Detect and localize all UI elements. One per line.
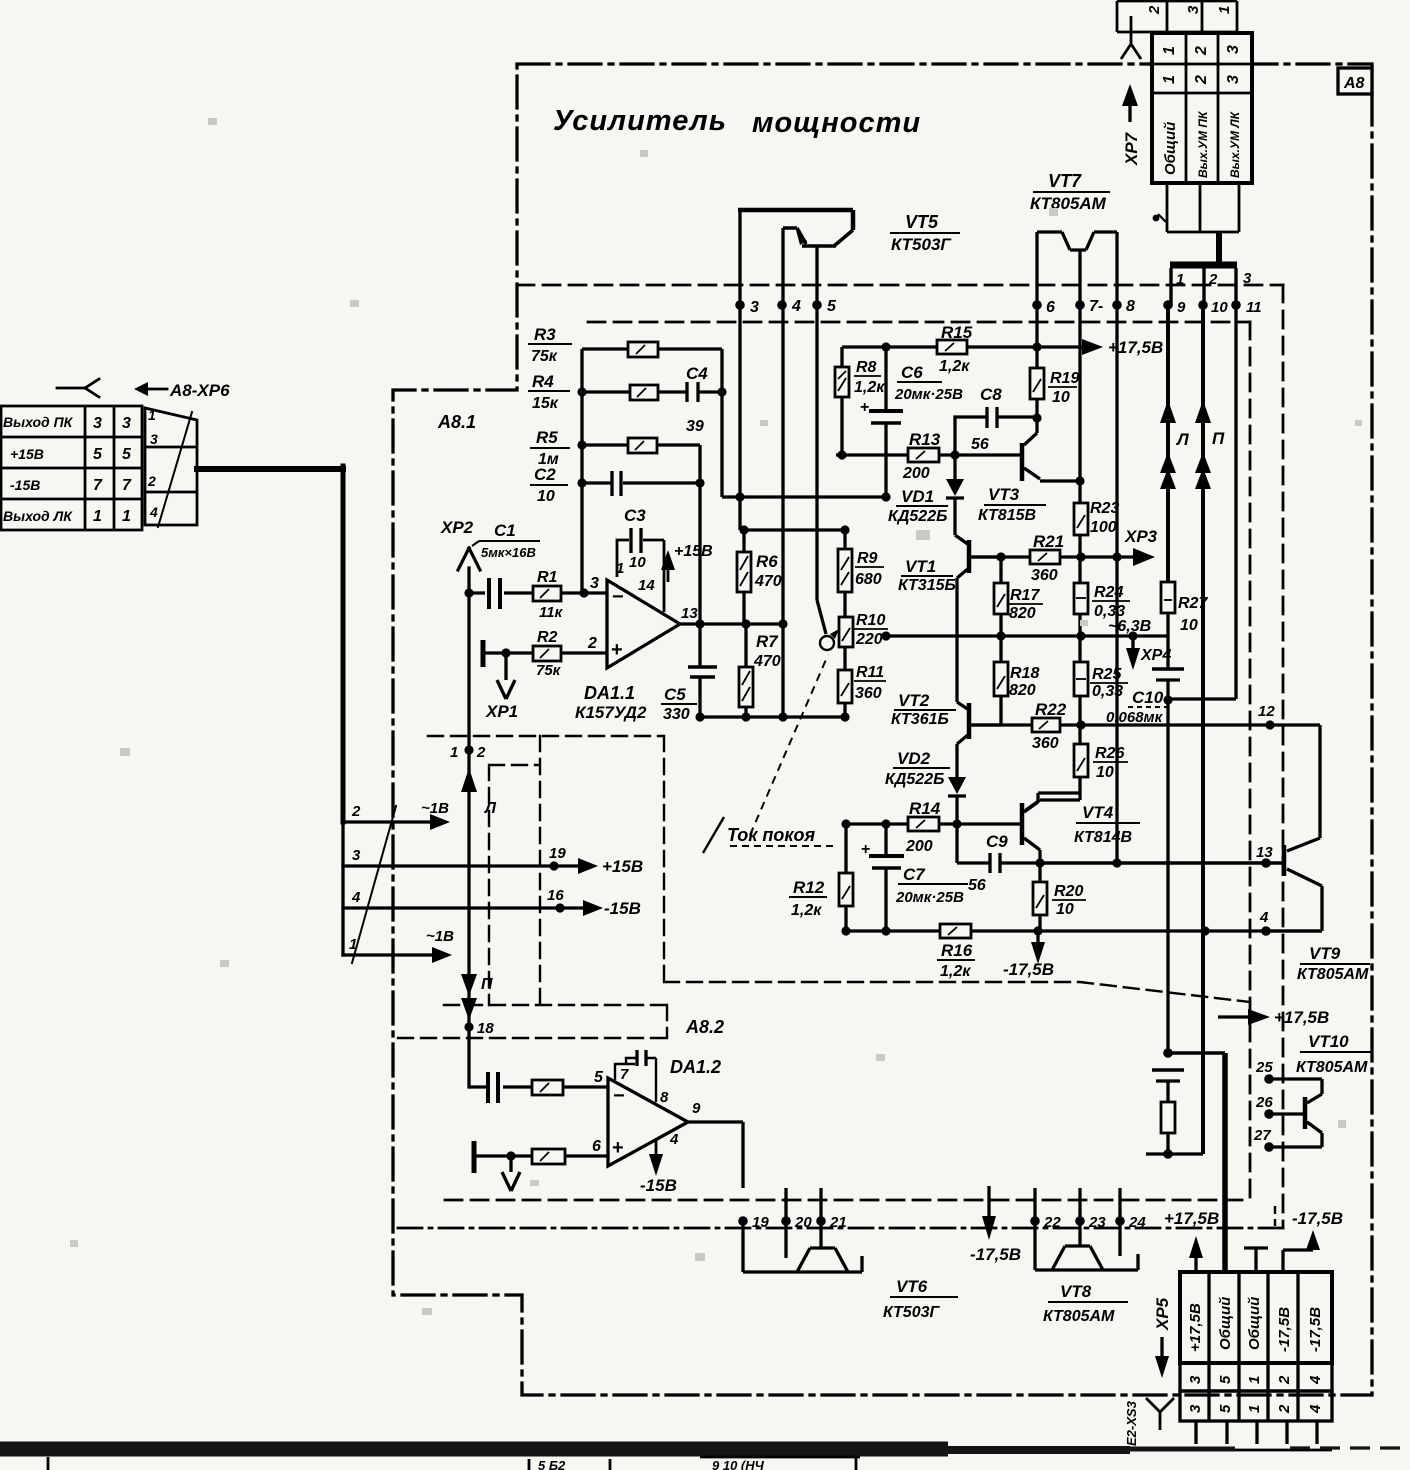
svg-text:3: 3: [1225, 75, 1242, 84]
board edge dashed line top outer: [517, 284, 1283, 287]
svg-text:-17,5В: -17,5В: [1276, 1307, 1293, 1352]
svg-text:100: 100: [1090, 519, 1117, 536]
svg-text:Вых.УМ ПК: Вых.УМ ПК: [1196, 110, 1210, 178]
connector XP7 upper mating cells: [1117, 1, 1237, 32]
svg-text:10: 10: [1056, 901, 1074, 918]
svg-text:R14: R14: [909, 799, 941, 818]
svg-text:КД522Б: КД522Б: [885, 771, 944, 788]
svg-text:VT2: VT2: [898, 691, 930, 710]
svg-text:5: 5: [93, 446, 103, 463]
svg-text:А8.2: А8.2: [685, 1017, 724, 1037]
svg-text:3: 3: [1185, 5, 1202, 14]
svg-text:R2: R2: [537, 629, 558, 646]
svg-text:2: 2: [1193, 75, 1210, 85]
svg-text:С3: С3: [624, 506, 646, 525]
svg-text:VT5: VT5: [905, 212, 939, 232]
svg-text:2: 2: [587, 635, 597, 652]
Tok pokoya label: [703, 817, 724, 853]
cable arrow to A8-XP6: [146, 388, 167, 391]
transistor VT5 (external, top): [738, 210, 853, 230]
svg-text:VT8: VT8: [1060, 1282, 1092, 1301]
resistor R6: [742, 530, 745, 624]
connector plug parallelogram: [145, 408, 197, 527]
svg-text:+15В: +15В: [602, 857, 643, 876]
svg-text:-15В: -15В: [640, 1176, 677, 1195]
resistor R7: [744, 624, 747, 717]
svg-text:Усилитель: Усилитель: [553, 105, 727, 137]
XP4 test point arrow down: [1131, 636, 1134, 650]
XP3 arrowhead: [1133, 548, 1155, 566]
svg-text:VT9: VT9: [1309, 944, 1341, 963]
svg-text:VT1: VT1: [905, 557, 936, 576]
pins 22,23,24: [1030, 1216, 1040, 1226]
svg-text:3: 3: [1225, 45, 1242, 54]
board edge dashed line top inner: [588, 321, 1250, 324]
svg-text:3: 3: [150, 431, 158, 447]
svg-text:75к: 75к: [531, 348, 558, 365]
svg-text:5: 5: [594, 1069, 604, 1086]
svg-text:13: 13: [1256, 844, 1273, 861]
svg-text:R12: R12: [793, 878, 825, 897]
svg-text:ХР7: ХР7: [1122, 131, 1141, 166]
svg-text:7: 7: [620, 1066, 629, 1083]
svg-text:25: 25: [1255, 1059, 1273, 1076]
svg-text:~1В: ~1В: [421, 800, 449, 817]
svg-text:200: 200: [902, 465, 930, 482]
svg-text:360: 360: [855, 685, 882, 702]
XP1 test point arrow: [497, 653, 515, 699]
svg-text:Ток покоя: Ток покоя: [727, 825, 816, 845]
svg-text:+: +: [612, 1137, 624, 1159]
op-amp DA1.2: [608, 1078, 688, 1166]
R22 row y=725: [969, 723, 1320, 726]
svg-text:2: 2: [1146, 5, 1163, 15]
cable trunk vertical: [341, 466, 346, 822]
output pin 9: [688, 1120, 743, 1123]
transistor VT8: [1035, 1221, 1120, 1270]
svg-text:ХР3: ХР3: [1124, 527, 1158, 546]
svg-text:А8-ХР6: А8-ХР6: [169, 381, 230, 400]
svg-text:1: 1: [450, 744, 458, 761]
resistor R3 row: [582, 347, 722, 350]
svg-text:2: 2: [476, 744, 486, 761]
capacitor C4: [687, 382, 698, 402]
svg-text:+: +: [860, 399, 869, 416]
ground stub bar (R2 input): [481, 640, 486, 667]
svg-text:27: 27: [1253, 1127, 1271, 1144]
svg-text:1: 1: [1161, 46, 1178, 55]
svg-text:~1В: ~1В: [426, 928, 454, 945]
P output line (pin 10): [1201, 305, 1205, 1154]
svg-text:КТ805АМ: КТ805АМ: [1296, 1059, 1368, 1076]
svg-text:9: 9: [1177, 299, 1186, 316]
svg-text:1: 1: [93, 508, 102, 525]
pin 7 box and cap: [615, 1064, 635, 1080]
pin13 row y=863: [1040, 861, 1283, 864]
svg-text:470: 470: [754, 573, 782, 590]
diode VD1: [953, 455, 956, 535]
svg-text:С6: С6: [901, 363, 923, 382]
R14 row y=824: [846, 822, 1022, 825]
capacitor C8 loop: [955, 417, 1037, 455]
row y=530: [740, 497, 845, 530]
svg-text:3: 3: [122, 415, 131, 432]
svg-text:К157УД2: К157УД2: [575, 703, 647, 722]
svg-text:2: 2: [351, 803, 361, 820]
svg-text:С4: С4: [686, 364, 708, 383]
+17,5V arrow above col1: [1194, 1256, 1197, 1272]
transistor VT2: [957, 702, 969, 710]
svg-text:18: 18: [477, 1020, 494, 1037]
svg-text:+: +: [861, 841, 870, 858]
resistor R18: [999, 636, 1002, 725]
svg-text:R19: R19: [1050, 370, 1079, 387]
svg-text:+15В: +15В: [10, 446, 44, 462]
connector table XP6 (left): [1, 406, 142, 530]
plug slant mark: [158, 412, 192, 527]
svg-text:R20: R20: [1054, 883, 1083, 900]
svg-text:11к: 11к: [539, 604, 564, 621]
mating fork at XP5: [1146, 1398, 1174, 1430]
svg-text:1: 1: [616, 560, 624, 577]
resistor R15: [937, 340, 967, 354]
resistor R8: [840, 347, 843, 455]
resistor R20: [1038, 863, 1041, 931]
svg-text:5: 5: [827, 298, 837, 315]
zobel capacitor: [1152, 1068, 1184, 1072]
svg-text:R4: R4: [532, 372, 554, 391]
input capacitor (DA1.2): [469, 1085, 486, 1088]
svg-text:5мк×16В: 5мк×16В: [481, 545, 536, 560]
svg-text:Е2-ХS3: Е2-ХS3: [1124, 1400, 1139, 1446]
svg-text:С7: С7: [903, 865, 926, 884]
svg-text:4: 4: [791, 298, 801, 315]
svg-text:R6: R6: [756, 552, 778, 571]
svg-text:56: 56: [971, 436, 989, 453]
arrowheads down on input wire (P channel): [461, 974, 477, 996]
wire to R2: [483, 651, 533, 654]
svg-text:КТ503Г: КТ503Г: [883, 1304, 941, 1321]
board edge dashed line right outer: [1282, 285, 1285, 1228]
svg-text:КТ805АМ: КТ805АМ: [1297, 966, 1369, 983]
svg-text:2: 2: [1276, 1404, 1293, 1414]
svg-text:5: 5: [1217, 1404, 1234, 1413]
ground bus y=717: [700, 715, 845, 718]
svg-text:6: 6: [1046, 299, 1055, 316]
svg-text:мощности: мощности: [752, 107, 921, 139]
svg-text:3: 3: [93, 415, 102, 432]
svg-text:+17,5В: +17,5В: [1108, 338, 1163, 357]
svg-text:20: 20: [794, 1214, 812, 1231]
pin 4 arrow (-15V): [655, 1140, 658, 1156]
svg-text:10: 10: [1180, 617, 1198, 634]
feedback row y=497: [722, 495, 886, 498]
svg-text:6: 6: [592, 1138, 601, 1155]
feedback vertical x=700 (R5/C2 to output/C5): [698, 445, 701, 667]
svg-text:R16: R16: [941, 941, 973, 960]
arrowhead row2 right: [430, 814, 450, 830]
svg-text:+17,5В: +17,5В: [1187, 1303, 1204, 1352]
svg-text:-15В: -15В: [10, 477, 40, 493]
svg-text:-17,5В: -17,5В: [1307, 1307, 1324, 1352]
node pin19 dot: [549, 861, 558, 870]
svg-text:1,2к: 1,2к: [940, 963, 971, 980]
svg-text:С9: С9: [986, 832, 1008, 851]
wire R2 to op-amp pin2: [561, 651, 607, 654]
transistor VT7 (external, top): [1037, 232, 1117, 250]
capacitor C7 (electrolytic): [884, 824, 887, 931]
svg-text:10: 10: [1096, 764, 1114, 781]
svg-text:ХР1: ХР1: [485, 702, 518, 721]
svg-text:Вых.УМ ЛК: Вых.УМ ЛК: [1228, 110, 1242, 178]
svg-text:VT6: VT6: [896, 1277, 928, 1296]
svg-text:−: −: [612, 586, 624, 608]
svg-text:-17,5В: -17,5В: [970, 1245, 1021, 1264]
svg-text:R7: R7: [756, 632, 779, 651]
svg-text:DA1.1: DA1.1: [584, 683, 635, 703]
svg-text:КТ815В: КТ815В: [978, 507, 1036, 524]
svg-text:−: −: [613, 1085, 625, 1107]
board edge dash-dot line bottom outer: [398, 1227, 1283, 1230]
resistor R1: [533, 586, 561, 601]
svg-text:-17,5В: -17,5В: [1003, 960, 1054, 979]
svg-text:11: 11: [1246, 299, 1262, 316]
inner dashed divider box around input wires: [428, 736, 1250, 1002]
transistor VT10: [1269, 1079, 1322, 1103]
pin dots 6,7,8: [1032, 300, 1042, 310]
resistors R9 R10 R11 column: [843, 530, 846, 717]
svg-text:Л: Л: [1175, 430, 1189, 449]
VT5 legs to pins 3,4,5: [740, 210, 817, 717]
wire R1 to op-amp pin3: [561, 591, 607, 594]
svg-text:200: 200: [905, 838, 933, 855]
svg-text:П: П: [481, 976, 493, 993]
~6,3V row y=636: [886, 634, 1168, 637]
svg-text:R15: R15: [941, 323, 973, 342]
svg-text:5 Б2: 5 Б2: [538, 1458, 566, 1470]
resistor R19: [1035, 347, 1038, 433]
svg-text:Общий: Общий: [1217, 1297, 1234, 1350]
L output line (pin 9): [1166, 305, 1170, 582]
svg-text:ХР2: ХР2: [440, 518, 474, 537]
svg-text:470: 470: [753, 653, 781, 670]
svg-text:7: 7: [122, 477, 132, 494]
gray scan speckles: [70, 118, 1362, 1315]
resistor R5 row: [582, 443, 700, 446]
svg-text:-15В: -15В: [604, 899, 641, 918]
svg-text:КТ503Г: КТ503Г: [891, 235, 952, 254]
svg-text:22: 22: [1043, 1214, 1061, 1231]
svg-text:2: 2: [1208, 271, 1218, 288]
svg-text:VT4: VT4: [1082, 803, 1114, 822]
svg-text:1,2к: 1,2к: [854, 379, 885, 396]
capacitor C10: [1152, 667, 1184, 671]
transistor VT4: [1020, 803, 1025, 845]
arrowhead -15V: [583, 900, 603, 916]
svg-text:R11: R11: [856, 664, 884, 681]
svg-text:39: 39: [686, 418, 704, 435]
capacitor C5: [688, 667, 717, 677]
svg-text:R23: R23: [1090, 500, 1119, 517]
svg-text:R24: R24: [1094, 584, 1123, 601]
bottom table fragments: [48, 1456, 860, 1470]
feedback vertical x=722 (R3 to C4 to y497 row): [720, 349, 723, 497]
+17,5V arrow to VT9/VT10: [1218, 1015, 1250, 1018]
svg-text:16: 16: [547, 887, 564, 904]
svg-text:10: 10: [1052, 389, 1070, 406]
svg-text:4: 4: [351, 889, 361, 906]
resistor R26: [1074, 744, 1088, 777]
svg-text:Л: Л: [484, 800, 497, 817]
R13 row y=455: [836, 453, 1022, 456]
input resistor (DA1.2): [532, 1080, 563, 1095]
svg-text:ХР5: ХР5: [1153, 1297, 1172, 1331]
svg-text:9 10 (НЧ: 9 10 (НЧ: [712, 1458, 765, 1470]
wire row 1 (right in): [343, 953, 445, 956]
svg-text:VT7: VT7: [1048, 171, 1082, 191]
R15 row y=347: [842, 345, 1090, 348]
connector table XP7: [1152, 33, 1252, 183]
svg-text:А8.1: А8.1: [437, 412, 476, 432]
resistor R2: [533, 646, 561, 661]
svg-text:С5: С5: [664, 685, 686, 704]
wire row 4 (-15V): [343, 906, 591, 909]
-17,5V wires above col4/5: [1283, 1244, 1313, 1272]
svg-text:10: 10: [1211, 299, 1228, 316]
svg-text:R10: R10: [856, 612, 885, 629]
svg-text:R17: R17: [1010, 587, 1040, 604]
thick wire from XP6 to cable trunk: [197, 466, 343, 472]
op-amp DA1.1: [607, 580, 680, 668]
op-amp output row: [680, 622, 783, 625]
resistor R16: [940, 924, 971, 938]
svg-text:R13: R13: [909, 430, 941, 449]
wire row 2 (left in): [343, 820, 443, 823]
arrowhead on input wire up (L channel): [461, 768, 477, 792]
transistor VT9: [1287, 725, 1320, 851]
svg-text:2: 2: [1276, 1375, 1293, 1385]
svg-text:VT3: VT3: [988, 485, 1020, 504]
svg-text:R1: R1: [537, 569, 558, 586]
connector XP6 mating fork: [57, 379, 99, 397]
svg-text:+15В: +15В: [674, 543, 713, 560]
svg-text:12: 12: [1258, 703, 1275, 720]
svg-text:14: 14: [638, 577, 655, 594]
svg-text:2: 2: [1193, 46, 1210, 56]
+17,5V arrowhead: [1082, 339, 1103, 355]
feedback bus vertical (R3/R4/R5/C2 left): [580, 349, 583, 593]
svg-text:Общий: Общий: [1246, 1297, 1263, 1350]
svg-text:С1: С1: [494, 521, 516, 540]
resistor R25: [1074, 662, 1088, 696]
svg-text:10: 10: [537, 488, 555, 505]
svg-text:820: 820: [1009, 605, 1036, 622]
wires bar to pins 9,10,11: [1171, 268, 1236, 305]
module designator box A8: [1338, 68, 1372, 94]
pin 6 input with ground: [472, 1141, 477, 1173]
outer module frame A8 (dash-dot): [393, 64, 1372, 1395]
svg-text:1: 1: [1161, 75, 1178, 84]
resistor R12: [844, 824, 847, 931]
svg-text:360: 360: [1032, 735, 1059, 752]
capacitor C1: [489, 578, 500, 609]
svg-text:С2: С2: [534, 465, 556, 484]
ground T above col2/3: [1244, 1248, 1268, 1272]
resistor R27: [1161, 582, 1175, 613]
svg-text:1: 1: [1246, 1376, 1263, 1384]
svg-text:360: 360: [1031, 567, 1058, 584]
thick stub below XP7: [1216, 232, 1222, 263]
svg-text:4: 4: [1307, 1375, 1324, 1385]
R10 trimmer wiper from pin 5: [817, 600, 826, 634]
capacitor C2 row: [582, 481, 700, 484]
svg-text:4: 4: [149, 504, 158, 520]
resistor R17: [999, 557, 1002, 636]
svg-text:Выход ПК: Выход ПК: [3, 414, 74, 430]
svg-text:П: П: [1212, 429, 1225, 448]
wires below XP5: [1196, 1421, 1317, 1444]
svg-text:КТ315Б: КТ315Б: [898, 577, 956, 594]
svg-text:4: 4: [1259, 909, 1269, 926]
XP7 lower mating cells: [1167, 183, 1239, 232]
svg-text:220: 220: [855, 631, 883, 648]
svg-text:330: 330: [663, 706, 690, 723]
svg-text:5: 5: [1217, 1375, 1234, 1384]
-17,5V bus y=931: [846, 929, 1322, 932]
svg-text:-17,5В: -17,5В: [1292, 1209, 1343, 1228]
svg-text:R26: R26: [1095, 745, 1124, 762]
svg-text:680: 680: [855, 571, 882, 588]
resistor column: R23: [1078, 481, 1081, 583]
capacitor C3: [631, 528, 641, 553]
svg-text:3: 3: [352, 847, 361, 864]
svg-text:75к: 75к: [536, 662, 562, 679]
svg-text:24: 24: [1128, 1214, 1146, 1231]
transistor VT3: [1024, 433, 1037, 445]
svg-text:VT10: VT10: [1308, 1032, 1349, 1051]
resistor R4 row: [582, 390, 687, 393]
svg-text:С8: С8: [980, 385, 1002, 404]
transistor VT1: [955, 535, 969, 545]
svg-text:3: 3: [1243, 270, 1252, 287]
svg-text:20мк·25В: 20мк·25В: [895, 889, 964, 906]
svg-text:КТ814В: КТ814В: [1074, 829, 1132, 846]
svg-text:13: 13: [681, 605, 698, 622]
svg-text:3: 3: [590, 575, 599, 592]
svg-text:10: 10: [629, 554, 646, 571]
svg-text:1,2к: 1,2к: [939, 358, 970, 375]
svg-text:КД522Б: КД522Б: [888, 508, 947, 525]
svg-text:19: 19: [549, 845, 566, 862]
arrowhead row1 right: [432, 947, 452, 963]
svg-text:+: +: [611, 639, 623, 661]
capacitor C9: [957, 824, 1040, 863]
zobel node and ground bus: [1163, 1048, 1173, 1058]
svg-text:820: 820: [1009, 682, 1036, 699]
svg-text:1: 1: [1246, 1405, 1263, 1413]
svg-text:~6,3В: ~6,3В: [1108, 618, 1151, 635]
svg-text:R25: R25: [1092, 666, 1122, 683]
svg-text:3: 3: [1187, 1375, 1204, 1384]
XP2 arrowhead up: [458, 548, 480, 570]
pins 25,26,27: [1264, 1074, 1274, 1084]
svg-text:0,068мк: 0,068мк: [1106, 709, 1164, 726]
svg-text:5: 5: [122, 446, 132, 463]
dashed step boundary above A8.2: [398, 1005, 667, 1038]
svg-text:R8: R8: [856, 359, 877, 376]
VT7 legs to pins 6,7,8: [1037, 232, 1117, 863]
svg-text:20мк·25В: 20мк·25В: [894, 386, 963, 403]
